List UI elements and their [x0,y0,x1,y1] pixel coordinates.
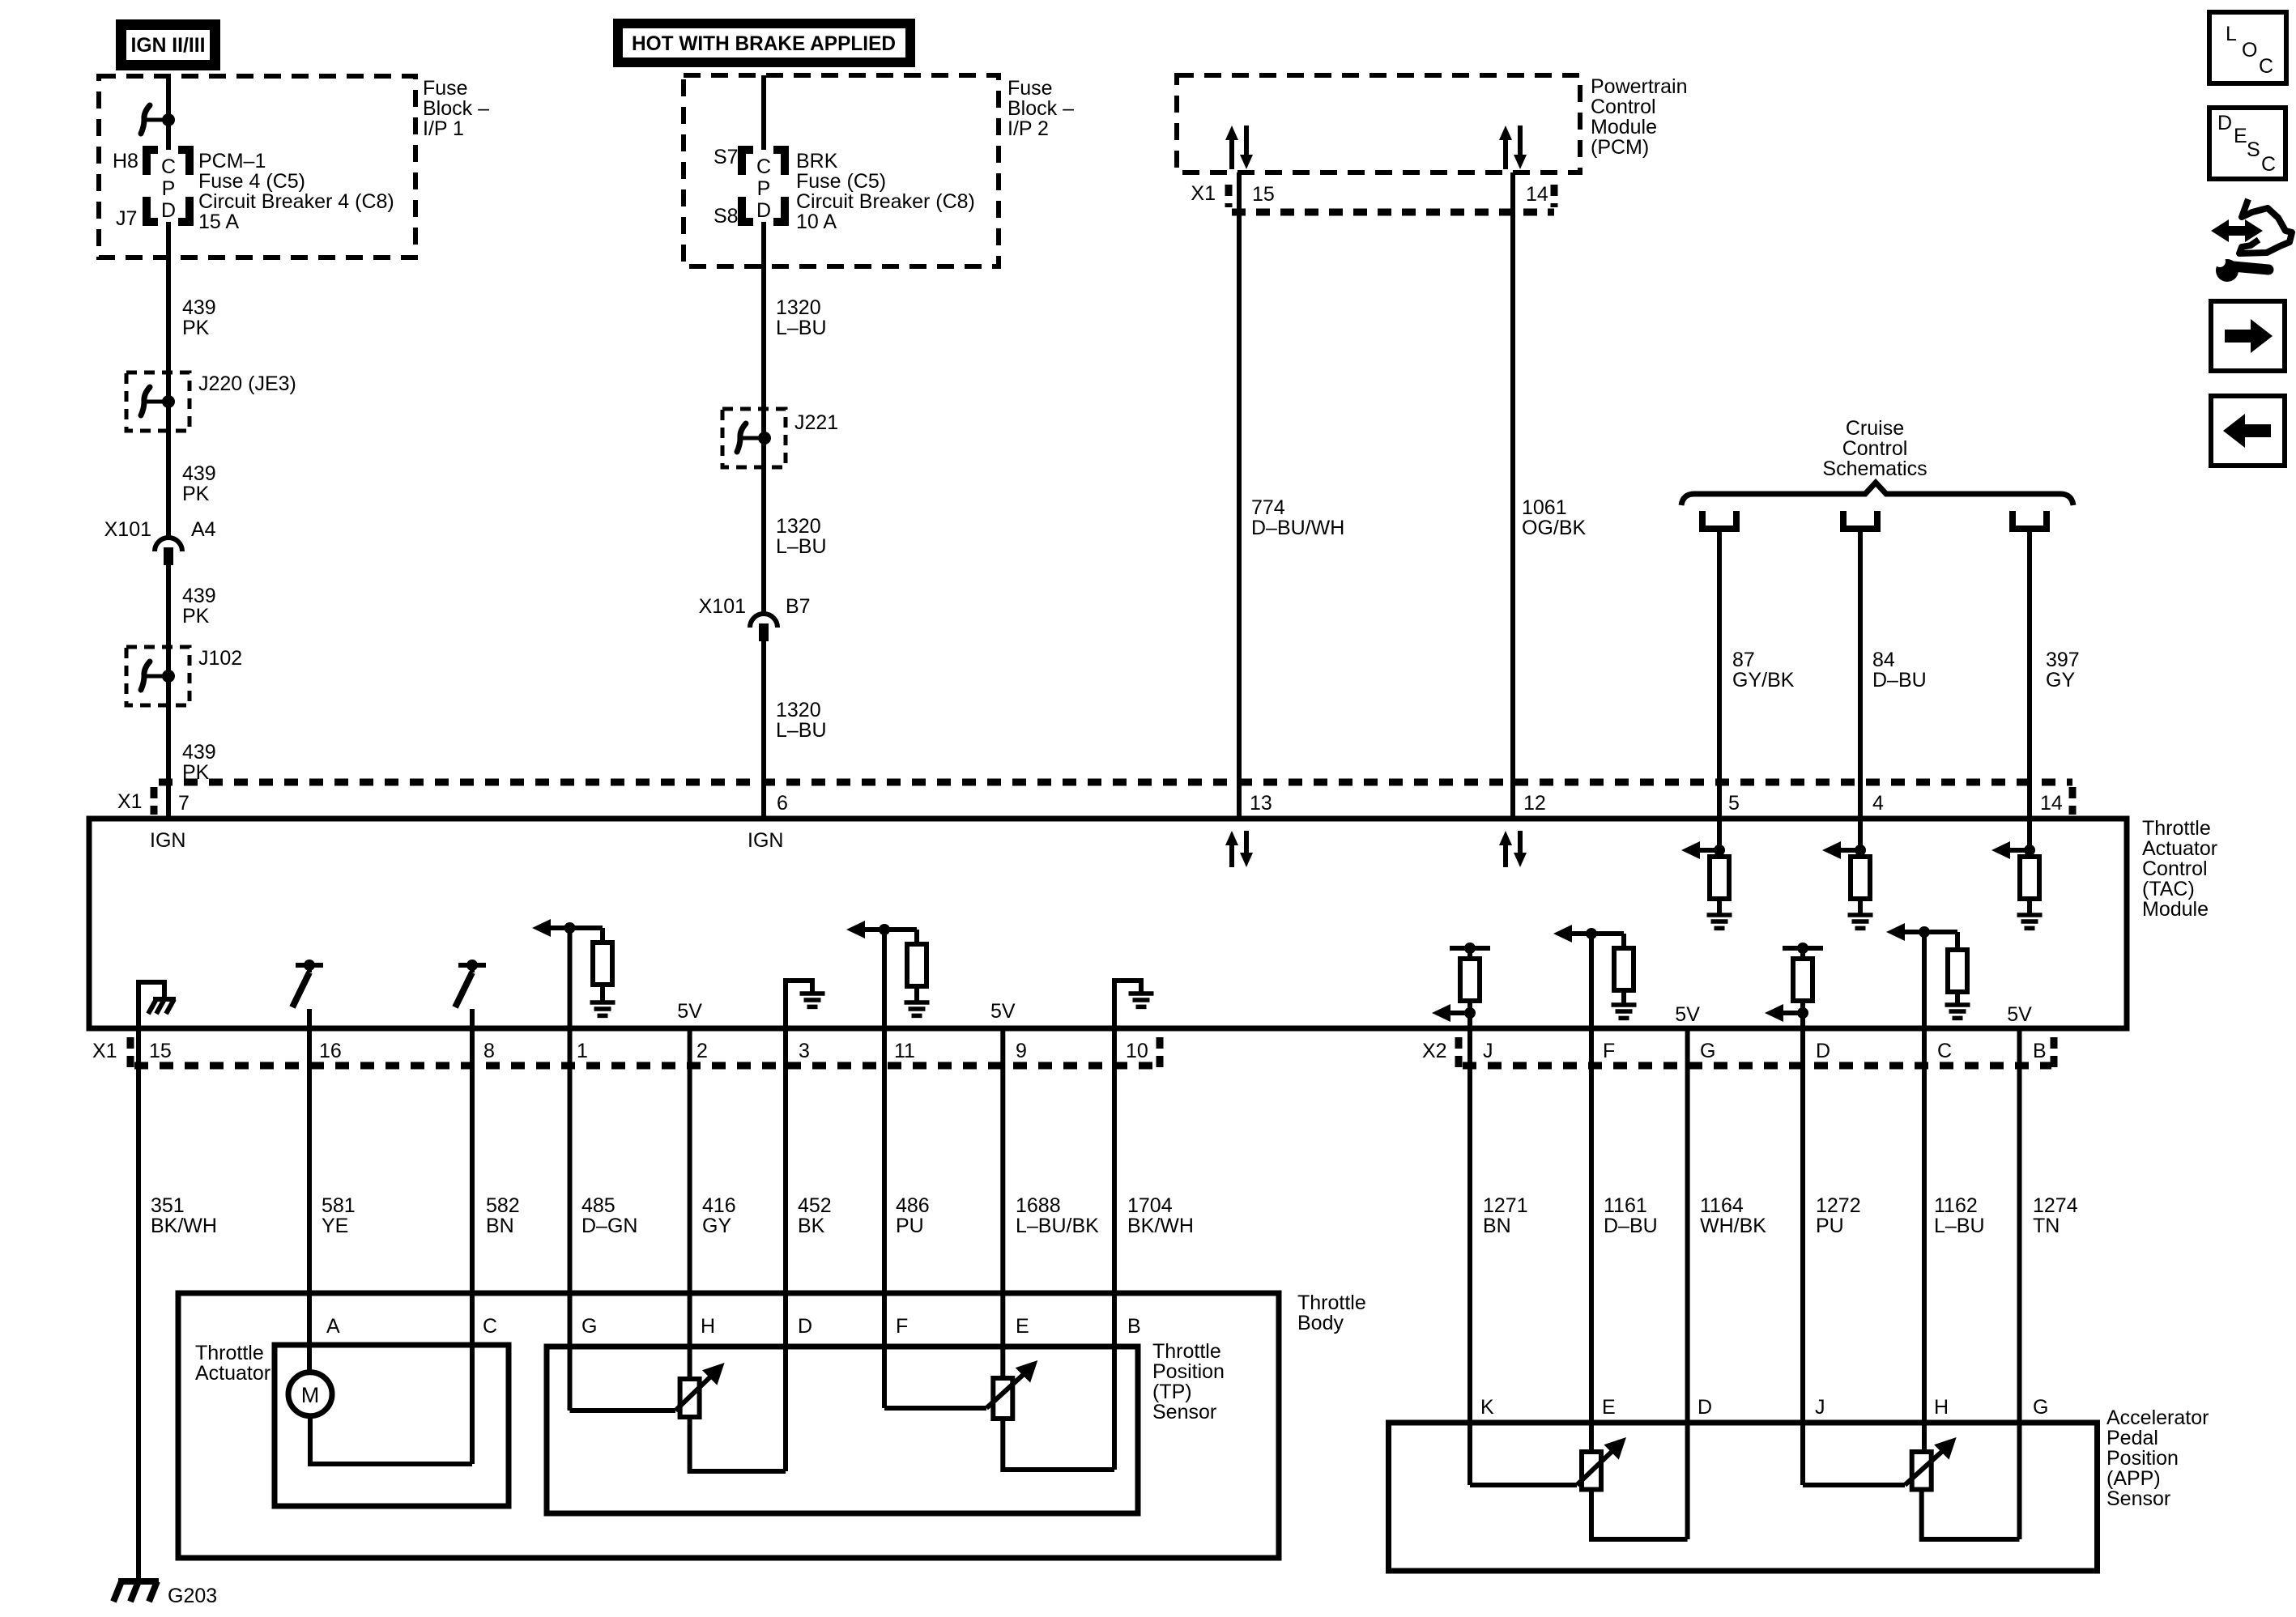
svg-text:BK/WH: BK/WH [1127,1215,1194,1237]
svg-text:Fuse (C5): Fuse (C5) [796,170,886,193]
ground symbol pin C [1945,992,1970,1018]
pull-up resistor pin 14 [2020,850,2039,899]
svg-text:7: 7 [178,792,190,815]
wire 1320 L-BU segment 2 [761,438,766,614]
Throttle Body box [178,1293,1279,1558]
wire feed inside fuse block 2 [761,75,766,150]
svg-text:L: L [2226,23,2237,45]
APP sensor feed resistor pin D [1783,943,1823,1013]
svg-text:GY: GY [2046,669,2075,691]
svg-text:G: G [581,1315,597,1338]
svg-text:BK/WH: BK/WH [151,1215,217,1237]
svg-text:1272: 1272 [1816,1194,1861,1217]
ground symbol pin F [1612,990,1637,1018]
signal arrow pin J [1432,1004,1476,1028]
APP pot 2 wiper feed wire (J) [1803,1483,1905,1487]
APP pot 2 (pins J/H/G) [1905,1437,1957,1490]
svg-text:Sensor: Sensor [2106,1487,2170,1510]
svg-text:439: 439 [182,741,216,764]
svg-text:E: E [1602,1396,1616,1419]
wire 1162 L-BU pin C to APP H [1922,1028,1927,1452]
svg-text:C: C [161,155,176,178]
svg-text:IGN: IGN [150,829,185,852]
Throttle Position (TP) Sensor box [547,1347,1138,1513]
bidirectional arrows TAC pin 13 [1225,831,1253,867]
svg-text:X1: X1 [117,790,143,813]
svg-text:15: 15 [149,1040,172,1062]
svg-text:GY/BK: GY/BK [1732,669,1795,691]
svg-text:D: D [756,199,771,222]
svg-text:Accelerator: Accelerator [2106,1406,2209,1429]
svg-text:L–BU: L–BU [776,719,827,742]
svg-text:BRK: BRK [796,150,838,172]
wire motor to pin C loop [310,1416,472,1464]
svg-text:15: 15 [1252,183,1275,206]
svg-text:X2: X2 [1422,1040,1447,1062]
fuse block I/P 2 dashed box [684,75,999,266]
svg-text:87: 87 [1732,649,1755,671]
splice J102 [126,647,190,705]
signal arrow pin D [1765,1004,1808,1028]
svg-text:1704: 1704 [1127,1194,1173,1217]
TP pot 2 lower leg to pin B [1003,1419,1114,1470]
pull-up resistor pin 11 [907,930,926,986]
TAC internal ground pin 3 [786,981,825,1028]
svg-text:5V: 5V [990,1000,1016,1023]
svg-text:12: 12 [1523,792,1546,815]
wire 397 GY vertical [2027,530,2032,819]
svg-text:5V: 5V [2007,1003,2032,1026]
bidirectional arrows TAC pin 12 [1499,831,1527,867]
TAC internal wire pin 5 [1717,819,1722,850]
svg-text:Actuator: Actuator [195,1362,270,1385]
svg-text:1320: 1320 [776,699,821,721]
svg-text:D: D [1816,1040,1830,1062]
svg-text:439: 439 [182,296,216,319]
svg-text:L–BU: L–BU [776,317,827,339]
wire 1704 BK/WH pin 10 to TB pin B [1112,1028,1117,1470]
wire 582 BN pin 8 to throttle actuator C [470,1028,475,1464]
Throttle Actuator box [275,1345,509,1506]
svg-text:(PCM): (PCM) [1591,136,1649,159]
PCM connector X1 strip [1232,209,1554,216]
pull-up resistor pin 4 [1851,850,1870,899]
TAC internal wire pin 4 [1858,819,1863,850]
wire 452 BK pin 3 to TB pin D [783,1028,788,1471]
svg-text:J7: J7 [116,207,137,230]
wire 439 PK segment 2 [166,402,171,538]
wire 1164 WH/BK pin G to APP D [1685,1028,1690,1539]
svg-text:1161: 1161 [1604,1194,1647,1217]
X1 bottom left dash [127,1037,134,1069]
svg-text:397: 397 [2046,649,2080,671]
wire 774 D-BU/WH [1237,172,1242,819]
svg-text:439: 439 [182,585,216,607]
wire 1274 TN pin B to APP G [2017,1028,2022,1539]
svg-text:C: C [1937,1040,1952,1062]
svg-text:D: D [161,199,176,222]
ground symbol pin 14 [2017,899,2043,928]
svg-text:G: G [2033,1396,2048,1419]
svg-text:L–BU: L–BU [1934,1215,1985,1237]
motor driver switch pin 16 [292,960,323,1028]
wire 1061 OG/BK [1510,172,1515,819]
svg-text:Throttle: Throttle [1152,1340,1221,1363]
svg-text:H: H [1934,1396,1949,1419]
svg-text:Throttle: Throttle [195,1342,264,1364]
svg-text:C: C [483,1315,497,1338]
svg-text:Position: Position [1152,1360,1225,1383]
ground symbol pin 11 [905,986,930,1015]
svg-text:A: A [326,1315,340,1338]
svg-text:D: D [798,1315,812,1338]
svg-text:439: 439 [182,462,216,485]
svg-text:(TAC): (TAC) [2142,878,2195,900]
svg-text:(APP): (APP) [2106,1467,2161,1490]
svg-text:14: 14 [1526,183,1548,206]
svg-text:582: 582 [486,1194,520,1217]
svg-text:Module: Module [1591,116,1657,138]
svg-text:9: 9 [1016,1040,1027,1062]
svg-text:G: G [1700,1040,1715,1062]
TP pot 1 lower leg to pin D [690,1417,786,1471]
svg-text:Cruise: Cruise [1846,417,1904,440]
X2 right dash [2051,1037,2058,1069]
svg-text:B: B [1127,1315,1141,1338]
svg-text:PU: PU [896,1215,924,1237]
svg-text:J102: J102 [198,647,242,670]
svg-text:Position: Position [2106,1447,2179,1470]
svg-text:X101: X101 [104,518,151,541]
fuse BRK (CPD) in fuse block 2 [742,150,785,222]
TP pot 2 (pins F/E/B) [986,1360,1037,1419]
svg-text:BN: BN [1483,1215,1511,1237]
svg-text:HOT WITH BRAKE APPLIED: HOT WITH BRAKE APPLIED [632,32,896,55]
splice J220 (JE3) [126,372,190,431]
svg-text:PK: PK [182,483,210,505]
svg-text:PK: PK [182,317,210,339]
ground symbol pin 1 [590,985,616,1015]
wire 1161 D-BU pin F to APP E [1589,1028,1594,1452]
wire 351 BK/WH pin 15 to G203 [136,1028,141,1581]
svg-text:L–BU/BK: L–BU/BK [1016,1215,1099,1237]
wire 439 PK segment 4 [166,676,171,819]
wire 439 PK segment 1 [166,222,171,402]
cruise stub connector for wire 87 GY/BK [1702,511,1736,529]
APP pot 2 lower leg to pin G [1922,1490,2020,1540]
svg-text:486: 486 [896,1194,930,1217]
cruise control brace [1681,483,2073,505]
svg-text:P: P [757,177,771,200]
svg-text:Body: Body [1297,1312,1344,1334]
svg-text:Actuator: Actuator [2142,837,2217,860]
X1 bottom right dash [1157,1037,1164,1069]
TP sensor 2 feed arrow pin 11 [846,921,917,1028]
PCM connector X1 right dash [1551,185,1558,207]
svg-text:D–BU/WH: D–BU/WH [1251,517,1344,539]
diagnostic hand and wrench icon [2211,199,2292,282]
APP sensor feed arrow pin F [1553,925,1624,1028]
svg-text:1162: 1162 [1934,1194,1978,1217]
TAC module connector X1 bottom dashed line [134,1062,1157,1070]
svg-text:I/P 1: I/P 1 [423,117,464,140]
svg-text:O: O [2242,39,2257,62]
svg-text:M: M [301,1383,320,1407]
svg-text:J: J [1483,1040,1493,1062]
wire 581 YE pin 16 to throttle actuator A [307,1028,312,1372]
TP pot 1 (pins G/H/D) [675,1363,725,1417]
svg-text:5: 5 [1728,792,1740,815]
signal arrow pin 5 [1681,841,1725,859]
bidirectional arrows PCM pin 15 [1225,126,1253,169]
APP sensor feed arrow pin C [1886,923,1957,1028]
svg-text:D: D [1698,1396,1712,1419]
svg-text:14: 14 [2040,792,2063,815]
svg-text:G203: G203 [168,1585,217,1607]
DESC button [2209,108,2285,179]
svg-text:WH/BK: WH/BK [1700,1215,1766,1237]
svg-text:J221: J221 [794,411,838,434]
svg-text:1688: 1688 [1016,1194,1061,1217]
svg-text:E: E [1016,1315,1029,1338]
ground symbol pin 4 [1848,899,1873,928]
svg-text:TN: TN [2033,1215,2060,1237]
wire 84 D-BU vertical [1858,530,1863,819]
splice J221 [722,409,786,467]
svg-text:D: D [2217,112,2232,134]
svg-text:8: 8 [483,1040,495,1062]
PCM connector X1 left dash [1225,185,1233,207]
wire 439 PK segment 3 [166,565,171,676]
svg-text:S8: S8 [714,205,739,228]
svg-text:S: S [2247,138,2260,161]
svg-text:Fuse 4 (C5): Fuse 4 (C5) [198,170,305,193]
svg-text:B: B [2033,1040,2047,1062]
TAC module connector X1 top dashed line [159,779,2072,786]
svg-text:Throttle: Throttle [2142,817,2211,840]
svg-text:PK: PK [182,605,210,628]
next page button (right arrow) [2211,301,2285,371]
svg-text:X1: X1 [1191,182,1216,205]
svg-text:15 A: 15 A [198,211,239,233]
svg-text:Control: Control [1842,437,1908,460]
tap hook node fuse block 1 [141,105,175,134]
TAC internal ground pin 15 [138,982,176,1028]
svg-text:13: 13 [1250,792,1272,815]
TP pot 1 wiper feed wire (G) [570,1408,676,1413]
svg-text:5V: 5V [677,1000,702,1023]
svg-text:Control: Control [2142,857,2208,880]
connector X101 pin B7 [750,614,777,641]
LOC button [2209,12,2286,83]
svg-text:J: J [1815,1396,1825,1419]
svg-text:351: 351 [151,1194,185,1217]
svg-text:2: 2 [696,1040,708,1062]
previous page button (left arrow) [2211,396,2285,466]
svg-text:IGN II/III: IGN II/III [131,34,206,57]
svg-text:X101: X101 [699,595,746,618]
TP sensor feed arrow pin 1 [532,919,603,1028]
svg-text:P: P [162,177,176,200]
svg-text:Circuit Breaker (C8): Circuit Breaker (C8) [796,190,975,213]
wire 416 GY pin 2 to TB pin H [688,1028,692,1379]
X1 top left dash [151,787,158,815]
svg-text:1164: 1164 [1700,1194,1744,1217]
svg-text:H8: H8 [113,150,138,172]
svg-text:5V: 5V [1675,1003,1700,1026]
svg-text:Fuse: Fuse [423,77,468,100]
Throttle Actuator Control (TAC) Module box [89,819,2127,1028]
svg-text:11: 11 [894,1040,915,1062]
svg-text:1061: 1061 [1522,496,1567,519]
svg-text:3: 3 [799,1040,810,1062]
svg-text:485: 485 [581,1194,616,1217]
svg-text:IGN: IGN [748,829,783,852]
throttle actuator motor M [288,1372,332,1416]
svg-text:BN: BN [486,1215,514,1237]
svg-text:Block –: Block – [1007,97,1074,120]
APP pot 1 wiper feed wire (K) [1470,1483,1577,1487]
svg-text:Fuse: Fuse [1007,77,1053,100]
svg-text:E: E [2234,125,2247,147]
svg-text:Control: Control [1591,96,1656,118]
wire 87 GY/BK vertical [1717,530,1722,819]
cruise stub connector for wire 84 D-BU [1843,511,1877,529]
pull-down resistor pin C [1948,932,1967,992]
svg-text:Schematics: Schematics [1822,457,1927,480]
APP pot 1 lower leg to pin D [1591,1490,1688,1540]
svg-text:1320: 1320 [776,296,821,319]
svg-text:C: C [756,155,771,178]
svg-text:Sensor: Sensor [1152,1401,1216,1423]
wire 486 PU pin 11 to TB pin F [882,1028,887,1408]
APP sensor feed resistor pin J [1450,943,1490,1013]
TP pot 2 wiper feed wire (F) [884,1406,986,1411]
TAC internal wire pin 14 [2027,819,2032,850]
svg-text:1: 1 [577,1040,588,1062]
TAC internal ground pin 10 [1114,981,1154,1028]
svg-text:1271: 1271 [1483,1194,1528,1217]
TAC module connector X2 dashed line [1463,1062,2051,1070]
pull-up resistor pin 1 [593,928,612,985]
svg-text:10: 10 [1126,1040,1148,1062]
svg-text:416: 416 [702,1194,736,1217]
pull-down resistor pin F [1614,934,1634,990]
svg-text:774: 774 [1251,496,1285,519]
svg-text:D–BU: D–BU [1872,669,1927,691]
svg-text:10 A: 10 A [796,211,837,233]
svg-text:PCM–1: PCM–1 [198,150,266,172]
svg-text:L–BU: L–BU [776,535,827,558]
X2 left dash [1455,1037,1463,1069]
svg-text:K: K [1480,1396,1494,1419]
svg-text:16: 16 [319,1040,342,1062]
svg-text:1274: 1274 [2033,1194,2078,1217]
cruise stub connector for wire 397 GY [2013,511,2047,529]
power label banner IGN II/III [116,19,220,70]
fuse block I/P 1 dashed box [99,76,415,257]
Accelerator Pedal Position (APP) Sensor box [1389,1423,2098,1571]
svg-text:S7: S7 [714,146,739,168]
svg-text:(TP): (TP) [1152,1381,1192,1403]
svg-text:452: 452 [798,1194,832,1217]
svg-text:84: 84 [1872,649,1895,671]
svg-text:PU: PU [1816,1215,1844,1237]
svg-text:Module: Module [2142,898,2209,921]
wire 1320 L-BU segment 1 [761,222,766,438]
svg-text:Throttle: Throttle [1297,1291,1366,1314]
signal arrow pin 14 [1991,841,2035,859]
svg-text:Circuit Breaker 4 (C8): Circuit Breaker 4 (C8) [198,190,394,213]
wire feed inside fuse block 1 [166,76,171,150]
connector X101 pin A4 [155,538,182,565]
Powertrain Control Module (PCM) dashed box [1177,75,1580,172]
svg-text:Block –: Block – [423,97,489,120]
wire 1688 L-BU/BK pin 9 to TB pin E [1000,1028,1005,1378]
svg-text:1320: 1320 [776,515,821,538]
svg-text:D–BU: D–BU [1604,1215,1658,1237]
svg-text:OG/BK: OG/BK [1522,517,1587,539]
svg-text:I/P 2: I/P 2 [1007,117,1049,140]
APP pot 1 (pins K/E/D) [1577,1437,1626,1490]
svg-text:Powertrain: Powertrain [1591,75,1688,98]
svg-text:6: 6 [777,792,788,815]
svg-text:GY: GY [702,1215,731,1237]
svg-text:581: 581 [322,1194,356,1217]
motor driver switch pin 8 [455,960,486,1028]
svg-text:A4: A4 [191,518,216,541]
pull-up resistor pin 5 [1710,850,1729,899]
wire 1272 PU pin D to APP J [1800,1028,1805,1485]
signal arrow pin 4 [1822,841,1866,859]
svg-text:4: 4 [1872,792,1884,815]
svg-text:B7: B7 [786,595,811,618]
wire 1271 BN pin J to APP K [1467,1028,1472,1485]
wire 485 D-GN pin 1 to TB pin G [568,1028,573,1411]
ground G203 [113,1581,159,1602]
bidirectional arrows PCM pin 14 [1499,126,1527,169]
fuse F4 PCM-1 (CPD) in fuse block 1 [147,150,190,222]
svg-text:D–GN: D–GN [581,1215,637,1237]
svg-text:X1: X1 [92,1040,117,1062]
svg-text:BK: BK [798,1215,825,1237]
X1 top right dash [2069,787,2077,815]
svg-text:F: F [896,1315,908,1338]
svg-text:YE: YE [322,1215,348,1237]
svg-text:C: C [2261,153,2276,176]
svg-text:F: F [1603,1040,1615,1062]
ground symbol pin 5 [1707,899,1732,928]
svg-text:C: C [2259,55,2273,78]
wire 1320 L-BU segment 3 [761,641,766,819]
svg-text:Pedal: Pedal [2106,1427,2158,1449]
power label banner HOT WITH BRAKE APPLIED [613,19,915,67]
svg-text:J220 (JE3): J220 (JE3) [198,372,296,395]
svg-text:H: H [701,1315,715,1338]
